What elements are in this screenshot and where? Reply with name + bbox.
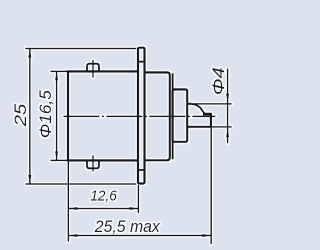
terminal bent tip (top bar)	[203, 113, 212, 116]
svg-text:Φ16,5: Φ16,5	[36, 90, 55, 139]
svg-text:12,6: 12,6	[90, 188, 117, 205]
center line (horizontal axis)	[63, 115, 215, 117]
dim 25: top extension line	[25, 48, 136, 50]
dim phi4: top extension line	[192, 103, 232, 105]
dim 12,6: left extension line (body edge continued)	[67, 162, 69, 242]
svg-text:25,5 max: 25,5 max	[94, 217, 160, 236]
dim 25,5 max: right extension line (terminal tip continued)	[210, 128, 212, 245]
dim 25,5 max: right arrow	[202, 234, 211, 237]
dim 25,5 max: dimension line	[68, 235, 211, 237]
dim 12,6: right extension line (flange face continued)	[137, 185, 139, 213]
terminal bottom edge	[187, 126, 212, 128]
svg-text:25: 25	[11, 103, 30, 127]
dim 12,6: right arrow	[129, 207, 138, 210]
svg-text:Φ4: Φ4	[209, 67, 228, 95]
dim phi4: upper arrow (points down)	[226, 94, 229, 103]
top screw axis	[92, 60, 94, 78]
bottom screw axis	[92, 155, 94, 171]
flange bottom chamfer line	[138, 169, 145, 171]
flange	[138, 48, 145, 184]
terminal bend vertical	[210, 114, 212, 127]
dim phi4: dimension line	[227, 69, 229, 144]
top screw head	[87, 64, 99, 72]
dim 25: top arrow	[28, 49, 31, 58]
dim phi4: lower arrow (points up)	[226, 128, 229, 137]
dim phi16,5: bottom extension line	[51, 159, 68, 161]
front housing (first step)	[145, 72, 170, 160]
dim 12,6: dimension line	[68, 208, 138, 210]
terminal shoulder top edge	[187, 103, 191, 105]
housing chamfer edge	[172, 73, 174, 159]
dim phi16,5: bottom arrow	[55, 151, 58, 160]
terminal fillet curve	[192, 104, 206, 114]
dim phi4: bottom extension line	[212, 126, 232, 128]
dim 25: bottom extension line	[25, 183, 136, 185]
dim 12,6: left arrow	[68, 207, 77, 210]
insulator bushing (second step)	[173, 89, 188, 141]
dim phi16,5: dimension line	[56, 71, 58, 160]
dim 25: bottom arrow	[28, 175, 31, 184]
dim 25: dimension line	[29, 49, 31, 185]
dim phi16,5: top extension line	[51, 70, 68, 72]
dim 25,5 max: left arrow	[68, 234, 77, 237]
dim phi16,5: top arrow	[55, 71, 58, 80]
flange top chamfer line	[138, 61, 145, 63]
body (main cylinder)	[68, 71, 138, 160]
bottom screw head	[87, 160, 99, 168]
